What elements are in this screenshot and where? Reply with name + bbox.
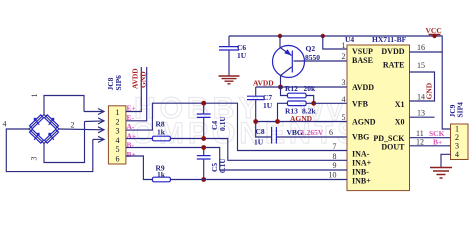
svg-text:RATE: RATE <box>383 61 405 70</box>
svg-text:B+: B+ <box>127 150 136 159</box>
svg-text:6: 6 <box>116 155 120 164</box>
node AVDD junction <box>278 85 283 90</box>
wire JC9 pin4 to ground <box>441 154 451 167</box>
capacitor C5 <box>197 148 227 180</box>
svg-text:X0: X0 <box>395 118 405 127</box>
capacitor C4 <box>197 103 227 138</box>
wire RATE pin15 + X1 pin14 to GND stub <box>410 72 435 101</box>
arrow pin3 <box>98 127 104 133</box>
svg-text:2: 2 <box>71 121 75 130</box>
bridge frame wires <box>44 96 84 115</box>
svg-text:1: 1 <box>30 94 39 98</box>
svg-text:INA+: INA+ <box>352 159 372 168</box>
node AGND-R13 <box>275 119 280 124</box>
svg-text:5: 5 <box>116 145 120 154</box>
wire B- net <box>126 148 347 171</box>
IC U4 HX711-BF <box>345 35 410 191</box>
svg-text:HX711-BF: HX711-BF <box>372 35 407 44</box>
ground (C6) <box>219 76 240 84</box>
svg-text:1.265V: 1.265V <box>301 128 324 137</box>
arrow pin4 <box>93 136 104 142</box>
svg-text:1: 1 <box>116 108 120 117</box>
svg-text:INB+: INB+ <box>352 177 371 186</box>
wire top rail VCC <box>229 36 451 129</box>
bridge element R top-right <box>44 115 59 130</box>
pin numbers U4 left <box>329 41 346 179</box>
wire VSUP pin1 <box>323 36 347 49</box>
svg-text:BASE: BASE <box>352 56 373 65</box>
wire AVDD rail / pin3 <box>256 86 347 88</box>
wire DOUT pin12 <box>410 145 451 147</box>
svg-text:7: 7 <box>333 142 337 151</box>
svg-text:GND: GND <box>139 71 148 88</box>
svg-text:20k: 20k <box>304 84 317 93</box>
wire E- stub GND <box>126 67 147 121</box>
svg-text:INB-: INB- <box>352 168 369 177</box>
svg-text:5: 5 <box>342 113 346 122</box>
node B- C5 top <box>201 145 206 150</box>
svg-text:3: 3 <box>342 78 346 87</box>
svg-text:1U: 1U <box>254 138 264 147</box>
svg-text:2: 2 <box>116 117 120 126</box>
wire Q2 base to pin2 <box>294 60 347 62</box>
wire X0 pin13 stub <box>410 116 435 118</box>
bridge element R top-left <box>29 115 44 130</box>
svg-text:4: 4 <box>116 136 120 145</box>
watermark <box>106 92 361 150</box>
svg-text:1U: 1U <box>237 51 247 60</box>
svg-text:4: 4 <box>342 95 346 104</box>
node AGND-C7 <box>253 119 258 124</box>
pin numbers U4 right <box>416 43 425 146</box>
svg-text:R12: R12 <box>285 84 298 93</box>
svg-text:SIP6: SIP6 <box>114 75 123 91</box>
svg-text:0.1U: 0.1U <box>218 116 227 131</box>
connector JC9 SIP4 <box>448 102 468 160</box>
connector JC8 SIP6 <box>106 75 126 164</box>
svg-text:4: 4 <box>455 150 459 159</box>
svg-text:16: 16 <box>417 43 425 52</box>
svg-text:DOUT: DOUT <box>381 143 405 152</box>
wire E+ stub AVDD <box>126 67 141 112</box>
svg-text:12: 12 <box>416 137 424 146</box>
svg-text:3: 3 <box>116 127 120 136</box>
svg-text:1k: 1k <box>157 170 166 179</box>
svg-text:13: 13 <box>417 109 425 118</box>
svg-text:10: 10 <box>329 170 337 179</box>
svg-text:1k: 1k <box>157 128 166 137</box>
wire A+ net right <box>170 139 347 161</box>
svg-text:1: 1 <box>342 41 346 50</box>
ground (JC9) <box>430 168 452 179</box>
svg-text:AVDD: AVDD <box>352 83 374 92</box>
node VFB junction <box>311 101 316 106</box>
svg-text:C8: C8 <box>256 127 265 136</box>
wire AGND rail pin5 <box>256 121 347 123</box>
node B+ C5 bottom <box>201 177 206 182</box>
bridge element R bottom-right <box>44 129 59 144</box>
svg-text:6: 6 <box>329 128 333 137</box>
svg-text:9: 9 <box>333 161 337 170</box>
svg-text:U4: U4 <box>345 35 354 44</box>
net labels JC8 <box>127 104 137 160</box>
svg-text:SIP4: SIP4 <box>456 102 465 118</box>
arrow pin1 <box>84 109 104 115</box>
svg-text:AVDD: AVDD <box>253 79 274 88</box>
svg-text:1U: 1U <box>263 101 273 110</box>
load cell bridge <box>3 94 105 172</box>
resistor R9 <box>152 164 170 182</box>
svg-text:4: 4 <box>3 120 7 129</box>
capacitor C8 <box>254 122 347 147</box>
wire B+ net right pin10 <box>170 179 347 181</box>
svg-text:AGND: AGND <box>352 118 376 127</box>
node A+ C4 bottom <box>201 136 206 141</box>
wire A+ net left <box>126 138 152 140</box>
svg-text:DVDD: DVDD <box>381 47 404 56</box>
junction VSUP drop <box>321 34 325 38</box>
resistor R13 <box>278 101 317 122</box>
wire VFB pin4 <box>314 102 347 104</box>
node A- C4 top <box>201 101 206 106</box>
resistor R12 <box>281 84 317 103</box>
wire B+ net left <box>126 156 152 180</box>
capacitor C7 <box>247 87 273 122</box>
transistor Q2 <box>273 36 321 86</box>
svg-text:X1: X1 <box>395 100 405 109</box>
svg-text:15: 15 <box>417 61 425 70</box>
svg-text:B+: B+ <box>433 137 442 146</box>
bridge element R bottom-left <box>29 129 44 144</box>
svg-text:8: 8 <box>333 152 337 161</box>
capacitor C6 <box>219 36 247 76</box>
svg-text:2: 2 <box>342 52 346 61</box>
svg-text:VBG: VBG <box>352 133 369 142</box>
svg-text:GND: GND <box>425 82 434 99</box>
svg-text:VCC: VCC <box>426 26 442 35</box>
resistor R8 <box>152 120 170 141</box>
svg-text:3: 3 <box>29 157 38 161</box>
svg-text:VSUP: VSUP <box>352 47 373 56</box>
svg-text:Q2: Q2 <box>306 44 316 53</box>
VCC <box>426 26 442 36</box>
junction Q2 emitter <box>278 34 282 38</box>
svg-text:B-: B- <box>127 141 135 150</box>
svg-text:VFB: VFB <box>352 100 369 109</box>
wire PD_SCK pin11 <box>410 137 451 139</box>
arrow pin2 <box>85 118 105 124</box>
wire A- net <box>126 103 347 150</box>
svg-text:0.1U: 0.1U <box>218 158 227 173</box>
svg-text:INA-: INA- <box>352 150 370 159</box>
node VCC junction <box>432 34 436 38</box>
wire DVDD pin16 <box>410 51 443 53</box>
